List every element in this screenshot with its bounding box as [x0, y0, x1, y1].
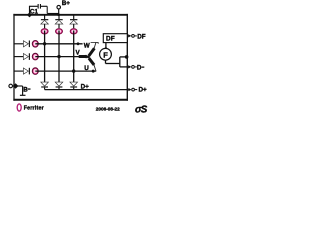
terminal DF: [127, 34, 145, 41]
svg-text:Ferriter: Ferriter: [24, 106, 44, 112]
positive diode D2 (column 2 top): [55, 15, 63, 28]
svg-text:D+: D+: [81, 83, 90, 90]
wire: D+ exciter rail: [45, 89, 129, 91]
svg-text:σS: σS: [135, 104, 148, 115]
ferrite bead on diode D4: [32, 41, 38, 48]
ferrite bead on diode D6: [32, 68, 38, 75]
svg-text:D+: D+: [139, 87, 148, 94]
ferrite bead on diode D3: [70, 29, 77, 34]
junction: U winding lead x row3: [92, 70, 95, 73]
junction dot C1/rail: [27, 12, 32, 17]
wire: row 3 (phase U): [35, 70, 96, 72]
negative diode D4 (row 1 left): [14, 41, 30, 48]
field winding F (rotor): [100, 48, 112, 60]
svg-text:W: W: [84, 43, 90, 50]
wire: right rail: [126, 14, 128, 101]
junction: phase2 column x row2: [57, 55, 60, 58]
wire: field bottom to rail: [106, 57, 128, 67]
exciter diode D9 (column 3 bottom): [70, 82, 78, 90]
wire: phase 3 column: [73, 31, 75, 83]
junction dot on right rail: [125, 55, 129, 59]
terminal B+: [57, 0, 70, 16]
node: field top junction: [105, 47, 108, 50]
stator winding V (phase 2): [76, 50, 90, 59]
terminal B-: [9, 83, 31, 95]
positive diode D1 (column 1 top): [41, 15, 49, 28]
ferrite bead on diode D5: [32, 53, 38, 60]
wire: row 1 (phase W): [35, 43, 82, 45]
negative diode D6 (row 3 left): [14, 68, 30, 75]
wire: top B+ rail: [13, 14, 128, 16]
svg-text:DF: DF: [137, 34, 146, 41]
svg-text:F: F: [103, 50, 108, 59]
stator winding W (phase 1): [84, 42, 98, 55]
svg-text:2006-08-22: 2006-08-22: [96, 106, 120, 111]
wire: bottom case rail: [13, 99, 128, 101]
node: row1 end dot: [77, 42, 80, 45]
wire: phase 1 column: [44, 31, 46, 83]
svg-text:B: B: [23, 86, 28, 93]
positive diode D3 (column 3 top): [70, 15, 78, 28]
junction: phase1 column x row1: [43, 42, 46, 45]
wire: left B- rail: [13, 14, 15, 101]
stator winding U (phase 3): [84, 58, 96, 72]
terminal D+: [128, 87, 147, 94]
stator star center node: [87, 55, 90, 58]
wire: DF box to field: [105, 43, 107, 49]
svg-text:B+: B+: [62, 0, 71, 7]
junction: phase3 column x row3: [72, 69, 75, 72]
ferrite bead on diode D2: [56, 29, 63, 34]
terminal D-: [120, 65, 145, 72]
exciter diode D7 (column 1 bottom): [41, 82, 49, 90]
exciter diode D8 (column 2 bottom): [55, 82, 63, 90]
wire: row 2 (phase V): [35, 56, 79, 58]
regulator box DF: [103, 34, 127, 43]
capacitor C1: [30, 4, 59, 16]
negative diode D5 (row 2 left): [14, 53, 30, 60]
logo: Ferriter: [17, 104, 44, 112]
ferrite bead on diode D1: [41, 29, 48, 34]
svg-text:D: D: [137, 65, 142, 72]
svg-text:U: U: [84, 65, 89, 72]
svg-text:DF: DF: [106, 36, 115, 43]
wire: phase 2 column: [58, 31, 60, 83]
